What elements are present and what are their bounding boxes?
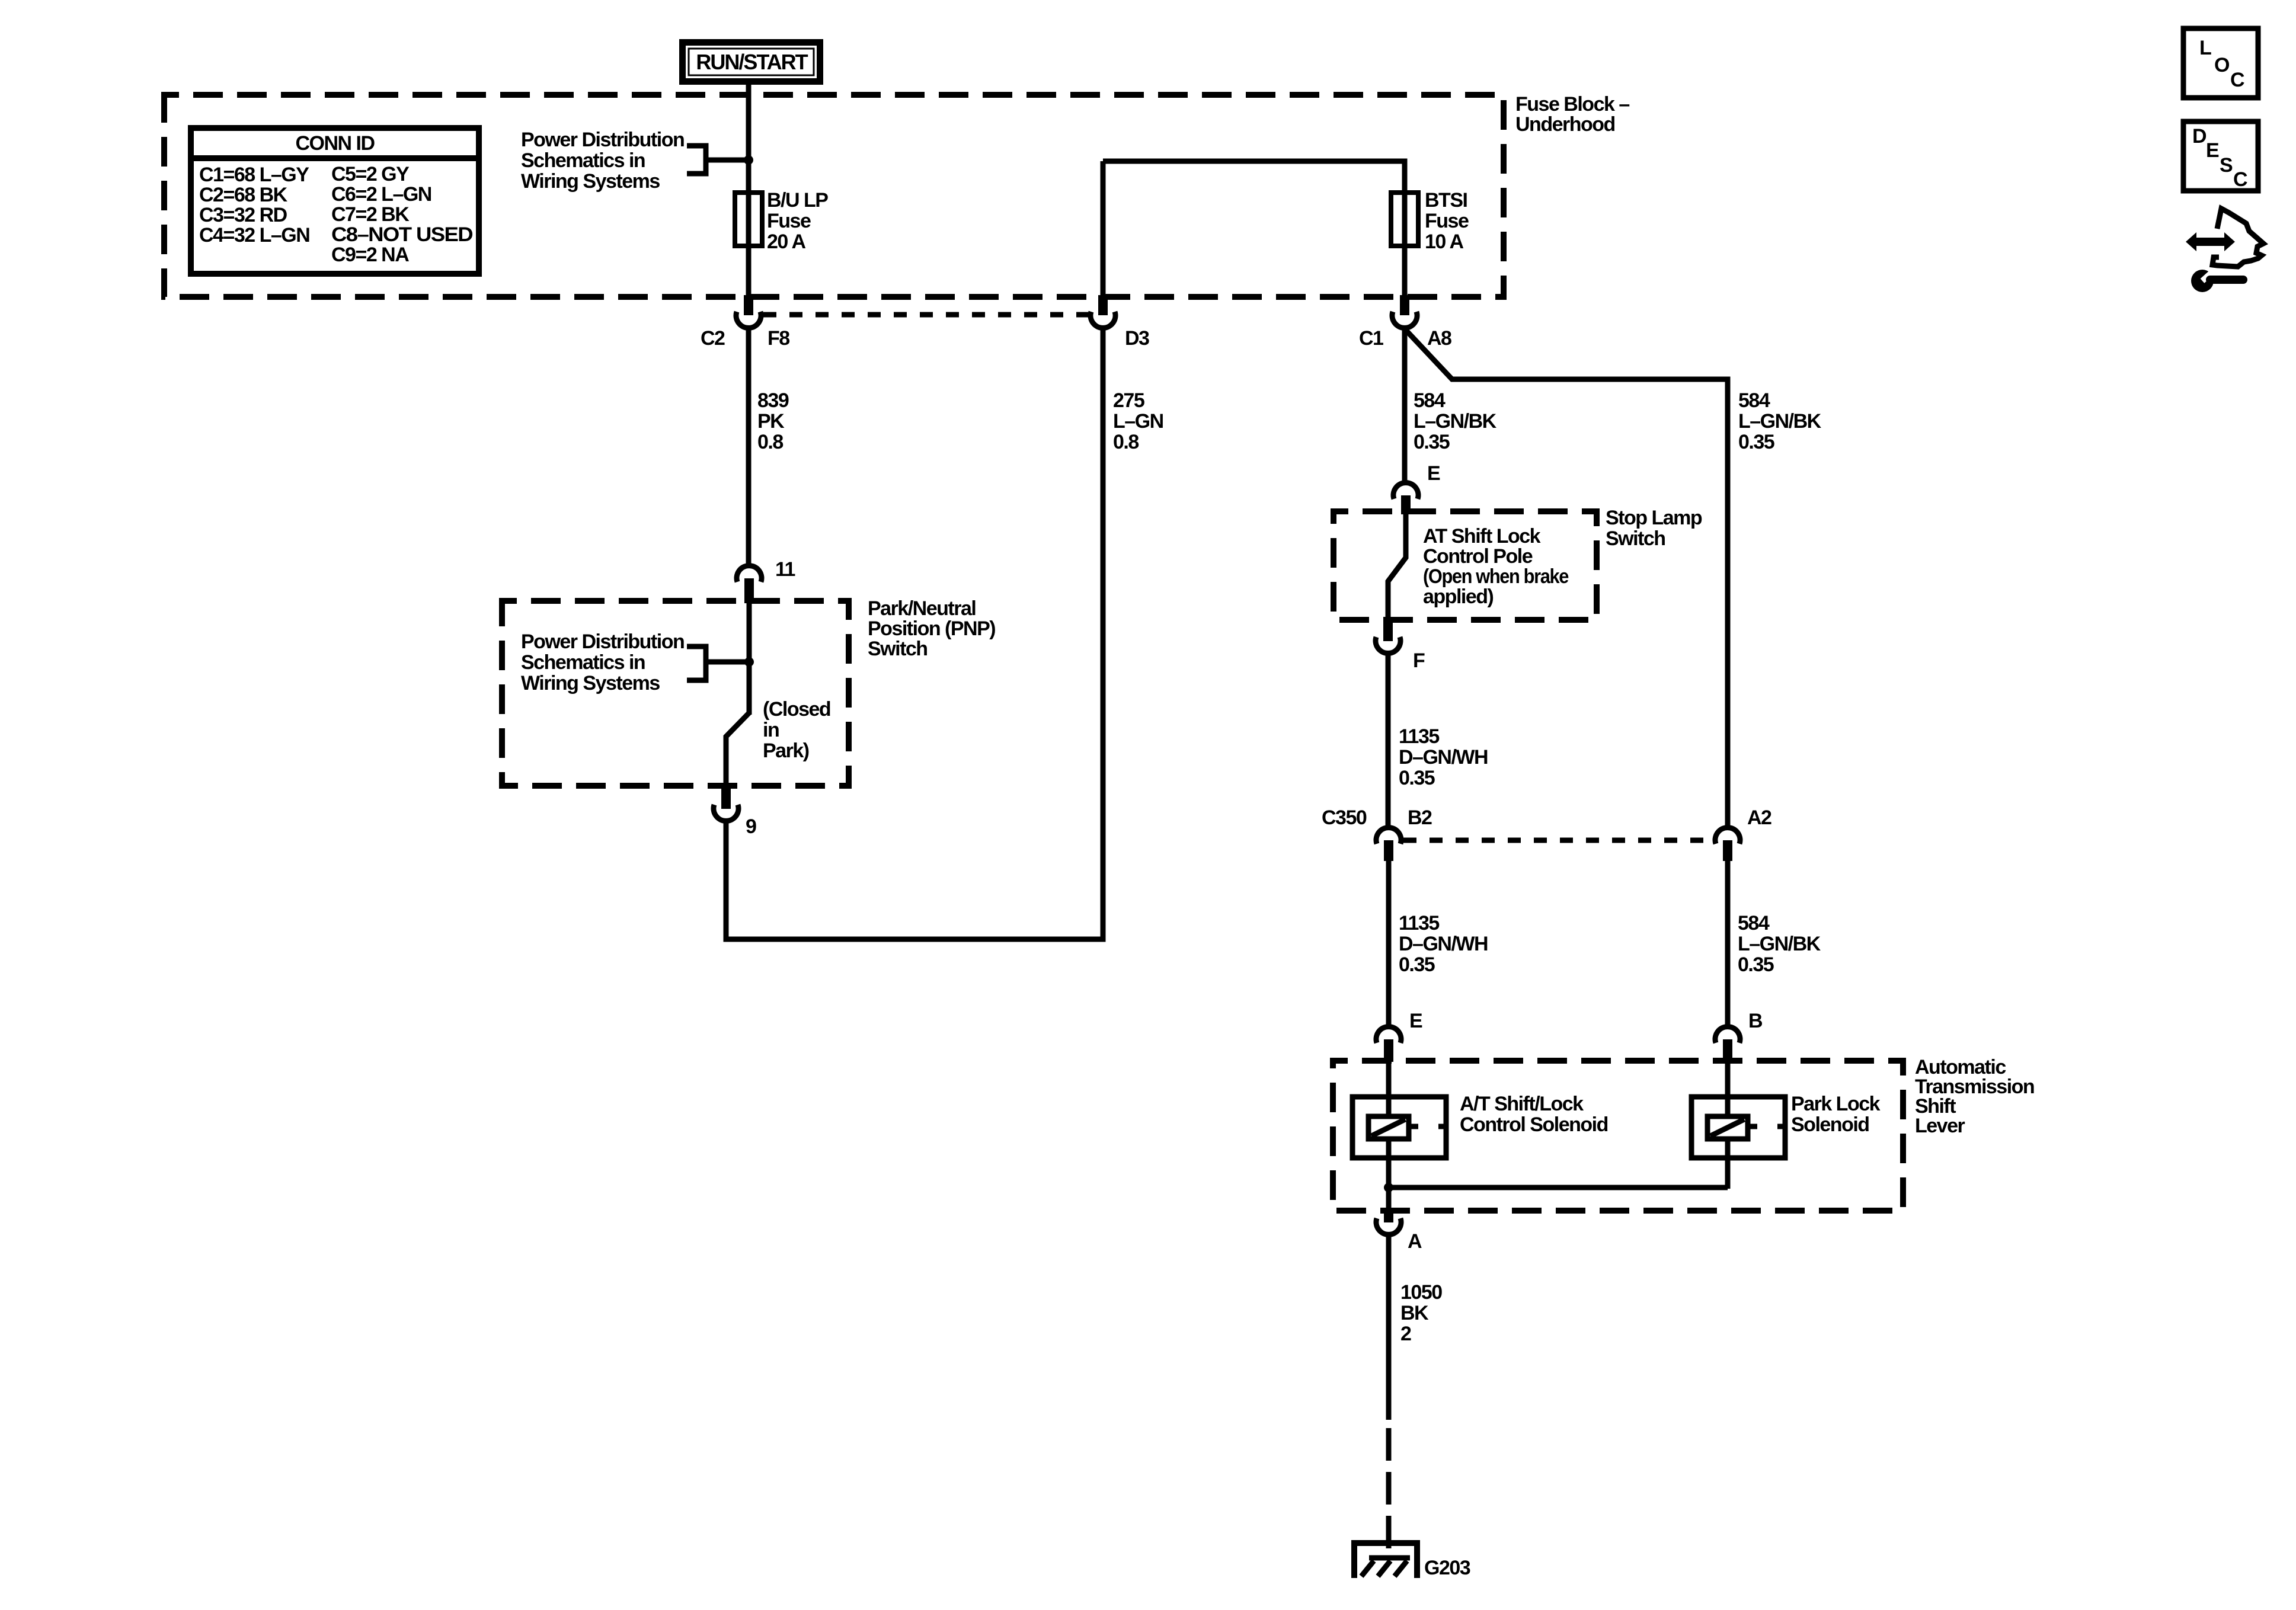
wire below park lock solenoid — [1725, 1138, 1731, 1189]
svg-text:A2: A2 — [1747, 806, 1771, 829]
svg-text:Underhood: Underhood — [1515, 113, 1615, 136]
svg-text:Power Distribution: Power Distribution — [521, 129, 684, 151]
svg-text:Fuse: Fuse — [767, 210, 811, 232]
svg-text:E: E — [1427, 462, 1440, 485]
svg-text:C9=2 NA: C9=2 NA — [331, 244, 409, 266]
svg-text:Lever: Lever — [1915, 1115, 1965, 1137]
fuse BTSI 10 A — [1391, 189, 1469, 253]
automatic transmission shift lever dashed box — [1333, 1061, 1903, 1211]
wire 584 lower — [1725, 861, 1731, 1027]
junction dot (solenoid common) — [1384, 1183, 1393, 1192]
svg-text:L–GN: L–GN — [1113, 410, 1163, 433]
label Park/Neutral Position (PNP) Switch — [868, 597, 995, 660]
svg-text:Park/Neutral: Park/Neutral — [868, 597, 976, 620]
junction dot (top) — [744, 155, 753, 165]
connector C350 B2 — [1322, 806, 1432, 861]
label AT Shift Lock Control Pole — [1423, 525, 1569, 608]
connector A — [1376, 1211, 1422, 1253]
switch blade PNP — [726, 713, 749, 786]
label 1135 D-GN/WH 0.35 (upper) — [1399, 725, 1488, 789]
svg-text:Schematics in: Schematics in — [521, 149, 645, 172]
svg-text:A: A — [1408, 1230, 1422, 1253]
svg-text:0.35: 0.35 — [1399, 767, 1435, 789]
svg-text:0.35: 0.35 — [1414, 431, 1450, 453]
svg-text:584: 584 — [1738, 389, 1770, 412]
wire RUN/START to C2 — [746, 82, 752, 297]
svg-text:C3=32 RD: C3=32 RD — [199, 204, 287, 226]
svg-text:Control Solenoid: Control Solenoid — [1460, 1113, 1608, 1136]
svg-text:0.35: 0.35 — [1399, 953, 1435, 976]
wire D3 up into fuse block — [1101, 161, 1106, 295]
svg-text:10 A: 10 A — [1425, 231, 1464, 253]
wire to BTSI fuse — [1103, 161, 1405, 297]
svg-text:O: O — [2214, 54, 2230, 76]
svg-text:C2=68 BK: C2=68 BK — [199, 184, 288, 206]
svg-text:0.35: 0.35 — [1738, 431, 1774, 453]
svg-text:20 A: 20 A — [767, 231, 806, 253]
park/neutral position switch dashed box — [502, 601, 849, 786]
label Stop Lamp Switch — [1606, 507, 1702, 550]
fuse B/U LP 20 A — [735, 189, 828, 253]
power distribution reference (top) — [521, 129, 746, 193]
svg-text:Switch: Switch — [1606, 527, 1665, 550]
svg-text:L: L — [2199, 37, 2211, 59]
label 275 L-GN 0.8 — [1113, 389, 1163, 453]
label 1050 BK 2 — [1400, 1281, 1442, 1345]
svg-text:(Open when brake: (Open when brake — [1423, 565, 1569, 588]
solenoid A/T shift lock control — [1352, 1097, 1446, 1158]
svg-text:D–GN/WH: D–GN/WH — [1399, 746, 1488, 769]
connector C1 A8 — [1359, 295, 1451, 350]
wire into park lock solenoid — [1725, 1062, 1731, 1118]
label Park Lock Solenoid — [1791, 1093, 1881, 1136]
wire 584 left — [1402, 328, 1408, 482]
wire pin 11 into switch — [747, 603, 752, 715]
dotted connector line B2 to A2 — [1403, 838, 1713, 843]
svg-text:Stop Lamp: Stop Lamp — [1606, 507, 1702, 529]
svg-text:applied): applied) — [1423, 585, 1494, 608]
label (Closed in Park) — [763, 698, 830, 762]
svg-text:A8: A8 — [1427, 327, 1451, 350]
svg-text:F: F — [1413, 649, 1425, 672]
wire 1135 lower — [1386, 861, 1392, 1027]
svg-text:D–GN/WH: D–GN/WH — [1399, 933, 1488, 955]
svg-text:C: C — [2230, 69, 2244, 91]
svg-text:A/T Shift/Lock: A/T Shift/Lock — [1460, 1093, 1584, 1115]
svg-text:E: E — [1409, 1010, 1422, 1032]
svg-text:BK: BK — [1400, 1302, 1429, 1324]
svg-text:B2: B2 — [1408, 806, 1432, 829]
connector E (shift lever) — [1376, 1010, 1422, 1062]
connector E (stop lamp) — [1393, 462, 1440, 514]
service icon (arrow, panel, wrench) — [2186, 209, 2263, 292]
label Automatic Transmission Shift Lever — [1915, 1056, 2034, 1137]
wire 9 to D3 loop — [726, 328, 1103, 939]
svg-text:F8: F8 — [768, 327, 789, 350]
label 584 L-GN/BK 0.35 (right) — [1738, 389, 1822, 453]
label 839 PK 0.8 — [757, 389, 789, 453]
svg-text:C: C — [2233, 168, 2247, 191]
svg-text:0.35: 0.35 — [1738, 953, 1774, 976]
svg-text:Fuse: Fuse — [1425, 210, 1469, 232]
svg-text:Wiring Systems: Wiring Systems — [521, 672, 660, 694]
svg-text:D: D — [2192, 125, 2207, 148]
wire 1050 BK — [1386, 1235, 1392, 1420]
svg-text:Control Pole: Control Pole — [1423, 545, 1533, 568]
svg-text:C350: C350 — [1322, 806, 1367, 829]
stop lamp switch dashed box — [1334, 511, 1597, 620]
svg-text:B: B — [1748, 1010, 1763, 1032]
svg-text:in: in — [763, 719, 779, 741]
svg-text:L–GN/BK: L–GN/BK — [1738, 410, 1822, 433]
power distribution reference (PNP) — [521, 630, 747, 694]
svg-text:CONN ID: CONN ID — [295, 132, 375, 155]
wire 1135 upper — [1386, 654, 1391, 827]
svg-text:L–GN/BK: L–GN/BK — [1414, 410, 1497, 433]
svg-text:C4=32 L–GN: C4=32 L–GN — [199, 224, 309, 247]
connector C2 F8 — [701, 295, 789, 350]
switch blade stop lamp — [1388, 514, 1406, 618]
svg-text:L–GN/BK: L–GN/BK — [1738, 933, 1821, 955]
svg-text:C6=2 L–GN: C6=2 L–GN — [331, 183, 431, 206]
svg-text:(Closed: (Closed — [763, 698, 830, 721]
svg-text:D3: D3 — [1125, 327, 1149, 350]
svg-text:C1: C1 — [1359, 327, 1383, 350]
fuse block underhood dashed box — [164, 95, 1504, 297]
connector F — [1376, 618, 1425, 672]
svg-text:584: 584 — [1738, 912, 1770, 934]
svg-text:S: S — [2220, 154, 2233, 177]
svg-text:839: 839 — [757, 389, 789, 412]
svg-text:PK: PK — [757, 410, 785, 433]
svg-text:1050: 1050 — [1400, 1281, 1442, 1304]
svg-text:584: 584 — [1414, 389, 1446, 412]
label 584 L-GN/BK 0.35 (lower) — [1738, 912, 1821, 976]
dotted connector line C2 to D3 — [763, 312, 1088, 318]
svg-text:B/U LP: B/U LP — [767, 189, 828, 212]
svg-text:11: 11 — [775, 558, 795, 581]
label A/T Shift/Lock Control Solenoid — [1460, 1093, 1608, 1136]
svg-text:C5=2 GY: C5=2 GY — [331, 163, 410, 185]
wire into A/T solenoid — [1386, 1062, 1392, 1118]
DESC box — [2183, 121, 2258, 191]
svg-text:C1=68 L–GY: C1=68 L–GY — [199, 164, 309, 186]
solenoid park lock — [1691, 1097, 1785, 1158]
svg-text:AT Shift Lock: AT Shift Lock — [1423, 525, 1541, 548]
LOC box — [2183, 28, 2258, 98]
ground G203 — [1351, 1540, 1470, 1579]
svg-text:Power Distribution: Power Distribution — [521, 630, 684, 653]
branch wire A8 to right side — [1405, 329, 1728, 827]
connector A2 — [1715, 806, 1771, 861]
svg-text:Solenoid: Solenoid — [1791, 1113, 1869, 1136]
svg-text:C8–NOT USED: C8–NOT USED — [331, 223, 473, 246]
svg-text:RUN/START: RUN/START — [696, 50, 808, 74]
power source RUN/START — [679, 39, 823, 85]
svg-text:E: E — [2206, 139, 2219, 162]
svg-text:Position (PNP): Position (PNP) — [868, 617, 995, 640]
label 1135 D-GN/WH 0.35 (lower) — [1399, 912, 1488, 976]
svg-text:BTSI: BTSI — [1425, 189, 1467, 212]
svg-text:0.8: 0.8 — [757, 431, 783, 453]
dashed wire to ground — [1386, 1428, 1392, 1558]
svg-text:1135: 1135 — [1399, 912, 1439, 934]
CONN ID table — [191, 128, 479, 274]
svg-text:1135: 1135 — [1399, 725, 1439, 748]
svg-text:2: 2 — [1400, 1323, 1411, 1345]
svg-text:9: 9 — [746, 815, 756, 838]
wire below A/T solenoid — [1386, 1138, 1392, 1189]
svg-text:Park Lock: Park Lock — [1791, 1093, 1881, 1115]
svg-text:0.8: 0.8 — [1113, 431, 1139, 453]
svg-text:G203: G203 — [1424, 1557, 1470, 1579]
wire solenoid common — [1389, 1185, 1728, 1190]
svg-text:Switch: Switch — [868, 638, 928, 660]
svg-text:Fuse Block –: Fuse Block – — [1515, 93, 1629, 116]
connector pin 9 — [714, 786, 756, 838]
svg-text:Wiring Systems: Wiring Systems — [521, 170, 660, 193]
connector D3 — [1091, 295, 1149, 350]
label Fuse Block - Underhood — [1515, 93, 1629, 136]
svg-text:275: 275 — [1113, 389, 1144, 412]
wire junction to connector A — [1386, 1188, 1392, 1211]
svg-text:C2: C2 — [701, 327, 725, 350]
svg-text:C7=2 BK: C7=2 BK — [331, 203, 410, 226]
svg-text:Schematics in: Schematics in — [521, 651, 645, 674]
wire 839 PK — [746, 328, 752, 565]
connector B — [1715, 1010, 1763, 1062]
label 584 L-GN/BK 0.35 (left) — [1414, 389, 1497, 453]
svg-text:Park): Park) — [763, 740, 809, 762]
junction dot (PNP) — [744, 657, 754, 667]
connector pin 11 — [737, 558, 795, 603]
